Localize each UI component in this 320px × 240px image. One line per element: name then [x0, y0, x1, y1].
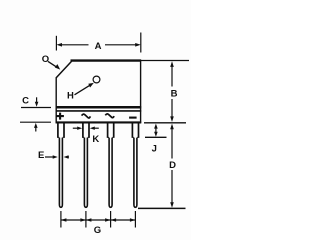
svg-text:B: B [171, 89, 178, 100]
G chain dimension line [61, 219, 135, 221]
pin 2 lead [84, 138, 87, 208]
dimension C lower extension line [20, 121, 51, 123]
pin 1 step [57, 136, 65, 138]
dimension E right arrow shaft [67, 156, 69, 158]
chamfer corner [56, 61, 71, 78]
J step extension line [145, 136, 167, 138]
O callout arrowhead [55, 64, 60, 70]
dimension A left extension line [55, 36, 57, 51]
pin 2 wide section [83, 123, 89, 137]
dimension B line upper [171, 66, 173, 87]
svg-text:H: H [67, 91, 74, 102]
dimension B bottom arrowhead [170, 116, 174, 122]
G tick pin 1 [60, 211, 62, 228]
dimension C lower arrow shaft [35, 127, 37, 131]
dimension B top arrowhead [170, 61, 174, 67]
G seg2 right arrowhead [105, 218, 111, 221]
plus polarity mark [56, 113, 64, 120]
G seg3 left arrowhead [111, 218, 117, 221]
dimension E left arrowhead [53, 155, 58, 158]
svg-text:D: D [169, 160, 176, 171]
ac tilde mark 2 [105, 114, 114, 118]
dimension K left arrowhead [77, 127, 82, 130]
G seg1 left arrowhead [61, 218, 67, 221]
pin 4 lead [134, 138, 137, 208]
dimension D bottom arrowhead [170, 202, 174, 208]
body top edge [71, 59, 142, 61]
dimension D line lower [171, 170, 173, 204]
svg-text:G: G [94, 225, 101, 236]
pin 4 step [132, 136, 140, 138]
minus polarity mark [129, 117, 137, 119]
dimension A right extension line [140, 33, 142, 53]
pin 3 step [107, 136, 115, 138]
O callout arrow shaft [48, 61, 57, 67]
dimension C upper extension line [21, 107, 51, 109]
mounting hole H [93, 76, 100, 83]
pin 1 lead [59, 138, 62, 208]
svg-text:J: J [152, 144, 157, 155]
svg-text:E: E [38, 150, 44, 161]
H callout arrow shaft [75, 85, 91, 95]
dimension A line [61, 44, 137, 46]
pin tip extension line (D datum) [138, 207, 186, 209]
body left edge [55, 77, 57, 123]
dimension A left arrowhead [56, 43, 62, 47]
svg-text:K: K [92, 134, 99, 145]
dimension C top arrowhead [35, 102, 39, 107]
dimension J bottom arrowhead [154, 132, 158, 137]
dimension C bottom arrowhead [34, 123, 38, 128]
dimension B line lower [171, 99, 173, 118]
dimension K right arrowhead [90, 127, 95, 130]
dimension D top arrowhead [170, 124, 174, 130]
slab bottom edge [56, 121, 142, 123]
G tick pin 4 [134, 211, 136, 228]
G tick pin 3 [110, 211, 112, 228]
G seg2 left arrowhead [86, 218, 92, 221]
dimension D line upper [171, 128, 173, 159]
dimension J top arrowhead [154, 124, 158, 129]
pin 3 lead [109, 138, 112, 208]
pin 4 wide section [132, 123, 138, 137]
slab second line [56, 110, 142, 112]
H callout arrowhead [88, 83, 94, 88]
body right edge [140, 60, 142, 124]
dimension E left arrow shaft [45, 156, 54, 158]
pin 1 wide section [58, 123, 64, 137]
slab bottom right extension line (B/J datum) [144, 122, 186, 124]
dimension J line [155, 128, 157, 133]
pin 2 step [82, 136, 90, 138]
G seg1 right arrowhead [80, 218, 86, 221]
svg-text:C: C [22, 95, 29, 106]
dimension C upper arrow shaft [36, 97, 38, 102]
svg-text:A: A [95, 41, 102, 52]
body top edge right extension (B datum) [141, 60, 189, 62]
dimension K right arrow shaft [94, 127, 99, 129]
pin 3 wide section [108, 123, 114, 137]
ac tilde mark 1 [82, 114, 91, 118]
G seg3 right arrowhead [130, 218, 136, 221]
dimension A right arrowhead [135, 43, 141, 47]
body bottom line (slab top, thick) [56, 106, 142, 109]
G tick pin 2 [85, 211, 87, 228]
svg-text:O: O [42, 54, 49, 65]
dimension K left arrow shaft [73, 127, 79, 129]
dimension E right arrowhead [64, 155, 69, 158]
